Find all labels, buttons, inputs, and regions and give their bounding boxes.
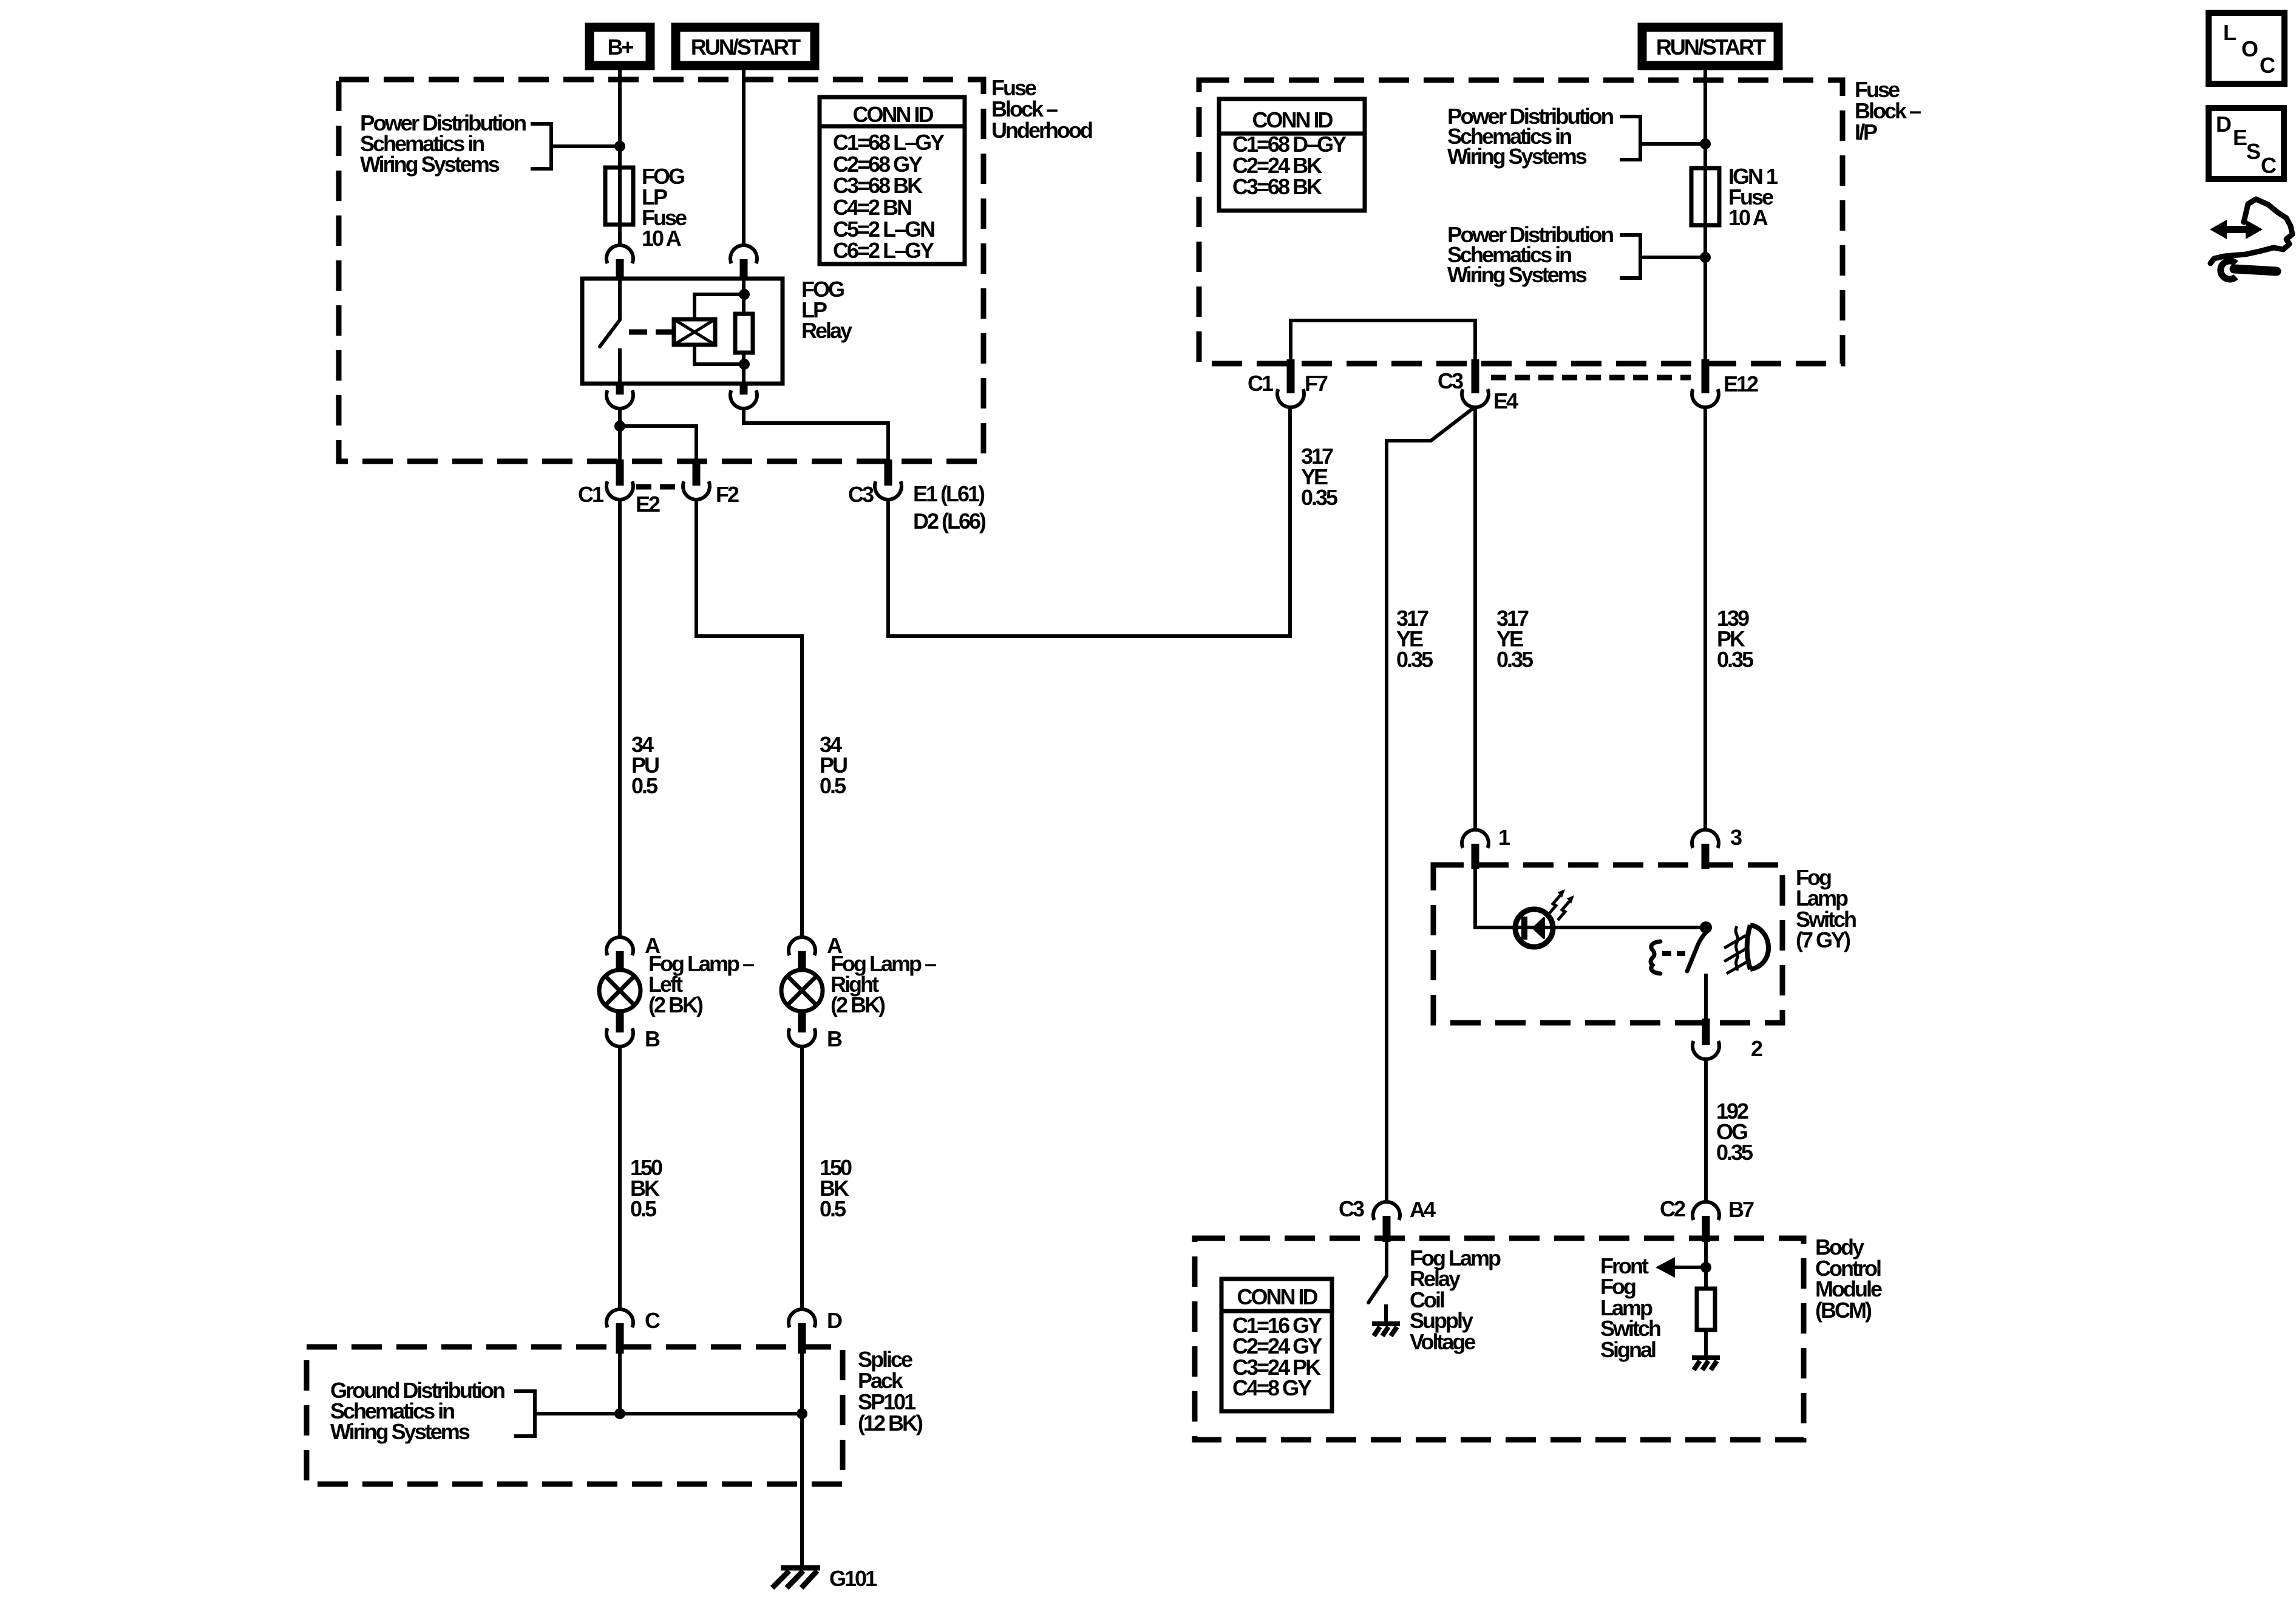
svg-text:Wiring Systems: Wiring Systems [360, 152, 500, 177]
wire relay left output down with branch [620, 408, 696, 467]
svg-text:CONN ID: CONN ID [1237, 1284, 1318, 1309]
svg-text:B: B [827, 1026, 842, 1051]
svg-text:Voltage: Voltage [1410, 1329, 1475, 1354]
svg-text:C4=2 BN: C4=2 BN [833, 195, 911, 220]
connector arc: RUN/START into relay [730, 245, 757, 279]
Splice Pack SP101 dashed border [307, 1347, 843, 1484]
wire label 150 BK 0.5 (left) [630, 1155, 662, 1221]
svg-text:C3: C3 [848, 482, 874, 507]
B+ terminal box [589, 27, 650, 66]
connector arc: relay output right [730, 384, 757, 408]
svg-text:(2 BK): (2 BK) [830, 992, 885, 1017]
Power Distribution note (left) [360, 110, 526, 177]
wire label 317 YE 0.35 (switch feed) [1496, 606, 1533, 672]
CONN ID table (BCM) [1221, 1279, 1332, 1411]
svg-text:0.5: 0.5 [630, 1196, 657, 1221]
connector F2 at fuse block border [683, 459, 710, 500]
Splice Pack SP101 label [858, 1347, 923, 1436]
svg-text:C: C [645, 1308, 661, 1333]
fog lamp right (lamp symbol) [781, 970, 823, 1011]
relay coil loop wires [695, 294, 744, 364]
Fog Lamp Switch label [1796, 865, 1856, 952]
wire E12 down to switch pin 3 [1703, 407, 1707, 830]
svg-text:C4=8 GY: C4=8 GY [1232, 1375, 1312, 1400]
svg-text:Underhood: Underhood [991, 118, 1092, 143]
wire label 150 BK 0.5 (right) [820, 1155, 852, 1221]
svg-text:C3: C3 [1438, 368, 1463, 393]
svg-text:0.35: 0.35 [1301, 485, 1338, 510]
fuse IGN 1 (rect) [1691, 168, 1719, 225]
switch actuating dashed link [1662, 951, 1685, 956]
svg-text:E4: E4 [1493, 388, 1518, 413]
Fog Lamp Right label [830, 951, 936, 1017]
bracket from Power Distribution note to B+ wire [531, 124, 616, 169]
connector 2 out of fog lamp switch [1693, 1019, 1719, 1059]
wire E2 down to left fog lamp [618, 499, 622, 938]
relay switch upper lead [618, 279, 622, 320]
relay resistor [735, 314, 753, 353]
wire RUN/START down to relay connector [742, 66, 746, 246]
switch blade (fog lamp switch) [1687, 931, 1707, 971]
FOG LP Fuse 10 A label [642, 164, 687, 251]
node: IGN wire tap lower [1700, 252, 1711, 263]
RUN/START terminal box (right) [1642, 27, 1778, 66]
connector 3 into fog lamp switch [1692, 830, 1719, 869]
svg-text:C: C [2260, 53, 2275, 78]
internal wire F7 to E4 inside I/P block [1291, 320, 1475, 361]
Fuse Block - Underhood dashed border [339, 80, 983, 461]
connector C1 F7 at I/P border [1277, 359, 1304, 407]
BCM input wire from B7 [1704, 1242, 1708, 1289]
wire label 317 YE 0.35 (diagonal branch) [1396, 606, 1433, 672]
connector C2 B7 into BCM [1693, 1202, 1719, 1242]
wire relay right output jog to C3 connector [744, 408, 888, 467]
Power Distribution note (I/P upper) [1447, 104, 1613, 169]
Power Distribution note (I/P lower) [1447, 222, 1613, 287]
fuse FOG LP (rect) [605, 168, 633, 225]
svg-text:B+: B+ [607, 35, 633, 59]
indicator LED (circle with diode) [1515, 909, 1553, 947]
connector D into splice pack [789, 1309, 815, 1354]
connector C3 E1 at fuse block border [875, 459, 902, 500]
svg-text:2: 2 [1751, 1036, 1762, 1061]
svg-text:S: S [2246, 139, 2260, 164]
svg-text:E12: E12 [1724, 371, 1758, 396]
BCM driver ground stub [1384, 1304, 1388, 1324]
svg-text:10 A: 10 A [1728, 205, 1768, 230]
svg-text:3: 3 [1730, 825, 1742, 850]
wire right lamp to splice pack [800, 1046, 804, 1310]
svg-text:C1: C1 [1248, 371, 1274, 396]
connector C into splice pack [606, 1309, 633, 1354]
Front Fog Lamp Switch Signal label [1600, 1253, 1660, 1362]
svg-text:0.35: 0.35 [1396, 647, 1433, 672]
bracket upper to IGN wire [1620, 117, 1702, 160]
RUN/START terminal box (left) [676, 27, 815, 66]
svg-text:F7: F7 [1305, 371, 1328, 396]
svg-text:B7: B7 [1728, 1197, 1754, 1222]
connector arc: fuse output into relay [606, 245, 633, 279]
connector C3 E4 at I/P border [1462, 359, 1489, 407]
connector B of right fog lamp [789, 1010, 815, 1046]
switch detent symbol [1651, 941, 1660, 974]
wire pin 1 to indicator [1475, 869, 1706, 927]
node: relay output split [614, 421, 625, 432]
node: splice junction C [614, 1408, 625, 1419]
connector A of right fog lamp [789, 937, 815, 971]
svg-text:Signal: Signal [1600, 1337, 1656, 1362]
svg-text:D: D [827, 1308, 842, 1333]
Fuse Block - I/P dashed border [1199, 80, 1843, 364]
wire RUN/START right down through fuse to E12 [1703, 66, 1707, 361]
svg-text:0.35: 0.35 [1496, 647, 1533, 672]
svg-text:1: 1 [1498, 825, 1510, 850]
svg-text:B: B [645, 1026, 660, 1051]
Fuse Block - I/P label [1855, 77, 1921, 144]
svg-text:Relay: Relay [801, 318, 852, 343]
IGN 1 Fuse 10 A label [1728, 164, 1778, 230]
Body Control Module dashed border [1195, 1238, 1804, 1440]
node: B+ wire tap junction [614, 141, 625, 152]
svg-text:F2: F2 [716, 482, 739, 507]
FOG LP Relay label [801, 277, 852, 343]
signal arrow (Front Fog Lamp Switch Signal) [1656, 1257, 1706, 1278]
wire label 192 OG 0.35 [1716, 1099, 1753, 1165]
BCM driver switch blade [1368, 1276, 1387, 1303]
relay FOG LP box [582, 279, 783, 384]
Ground Distribution note [330, 1378, 504, 1444]
CONN ID table (I/P fuse block) [1219, 99, 1365, 211]
svg-text:L: L [2223, 20, 2236, 45]
svg-text:C: C [2261, 153, 2277, 178]
bracket lower to IGN wire [1620, 235, 1702, 278]
wire label 34 PU 0.5 (right) [820, 732, 847, 798]
svg-text:0.35: 0.35 [1717, 647, 1754, 672]
Fog Lamp Relay Coil Supply Voltage label [1410, 1246, 1501, 1354]
wire B+ down to fuse and relay connector [618, 66, 622, 246]
svg-text:E2: E2 [636, 492, 660, 517]
fog lamp beam icon [1724, 925, 1768, 974]
node: BCM input junction [1700, 1262, 1711, 1273]
hand with arrow and wrench icon [2210, 199, 2292, 279]
switch lower contact [1704, 974, 1708, 1020]
svg-text:0.5: 0.5 [631, 773, 658, 798]
connector C1 E2 at fuse block border [606, 459, 633, 500]
svg-text:0.5: 0.5 [820, 1196, 846, 1221]
LOC index box [2209, 13, 2284, 84]
svg-text:C3=68 BK: C3=68 BK [1232, 174, 1322, 199]
connector E12 at I/P border [1692, 359, 1719, 407]
svg-text:CONN ID: CONN ID [1252, 107, 1333, 132]
ground (BCM input) [1692, 1358, 1720, 1370]
fog lamp left (lamp symbol) [599, 970, 640, 1011]
Body Control Module label [1815, 1235, 1882, 1323]
connector A of left fog lamp [606, 937, 633, 971]
connector arc: relay output left [606, 384, 633, 408]
indicator light rays [1549, 889, 1574, 920]
connector 1 into fog lamp switch [1462, 830, 1489, 869]
ground (BCM driver) [1372, 1324, 1400, 1336]
bracket from Ground Distribution note [514, 1391, 535, 1436]
CONN ID table (Underhood fuse block) [820, 97, 965, 264]
ground G101 [772, 1568, 820, 1588]
Fog Lamp Switch dashed border [1433, 865, 1782, 1023]
svg-text:D: D [2216, 112, 2231, 137]
relay switch lower lead [618, 348, 622, 384]
svg-text:C3: C3 [1339, 1196, 1364, 1221]
BCM driver wire from A4 [1385, 1242, 1388, 1276]
node: IGN wire tap upper [1700, 138, 1711, 149]
relay right leg wire [742, 279, 746, 384]
svg-text:(7 GY): (7 GY) [1796, 927, 1850, 952]
wire F2 down jog to right fog lamp [696, 499, 802, 938]
svg-text:E: E [2233, 125, 2247, 150]
connector body dashed link E4-E12 [1491, 375, 1691, 381]
svg-text:RUN/START: RUN/START [1656, 35, 1766, 59]
relay actuating dashed link [629, 330, 673, 335]
node: switch common junction [1700, 921, 1712, 934]
wire label 139 PK 0.35 [1717, 606, 1754, 672]
Fuse Block - Underhood label [991, 75, 1092, 143]
svg-text:0.5: 0.5 [820, 773, 846, 798]
wire label 317 YE 0.35 (F7 riser) [1301, 444, 1338, 510]
connector body dashed link C1-F2 [636, 484, 682, 490]
DESC index box [2209, 108, 2284, 179]
svg-text:C6=2 L–GY: C6=2 L–GY [833, 238, 934, 263]
connector B of left fog lamp [606, 1010, 633, 1046]
node: splice junction D [796, 1408, 807, 1419]
svg-text:RUN/START: RUN/START [691, 35, 801, 59]
svg-text:G101: G101 [829, 1566, 877, 1591]
svg-text:C1=68 L–GY: C1=68 L–GY [833, 130, 945, 155]
svg-text:A4: A4 [1410, 1197, 1436, 1222]
wire left lamp to splice pack [618, 1046, 622, 1310]
wire E4 down to switch pin 1 [1473, 407, 1477, 830]
wire switch to BCM B7 [1704, 1059, 1708, 1202]
svg-text:I/P: I/P [1855, 120, 1877, 144]
svg-text:D2 (L66): D2 (L66) [913, 509, 986, 534]
svg-text:(2 BK): (2 BK) [648, 992, 703, 1017]
wire C3 E1 down and across to F7 riser [888, 407, 1290, 636]
BCM pulldown resistor [1697, 1289, 1715, 1330]
svg-text:CONN ID: CONN ID [853, 102, 934, 127]
node: coil to resistor top [739, 289, 750, 300]
svg-text:C2: C2 [1660, 1196, 1685, 1221]
svg-text:C1: C1 [578, 482, 604, 507]
wire resistor to ground [1704, 1330, 1708, 1358]
node: coil to resistor bottom [739, 359, 750, 370]
svg-text:C3=68 BK: C3=68 BK [833, 173, 923, 198]
svg-text:Wiring Systems: Wiring Systems [1447, 262, 1587, 287]
svg-text:0.35: 0.35 [1716, 1140, 1753, 1165]
svg-text:O: O [2241, 36, 2258, 61]
wire label 34 PU 0.5 (left) [631, 732, 659, 798]
wire E4 diagonal branch to BCM A4 [1387, 407, 1475, 1202]
svg-text:(BCM): (BCM) [1815, 1298, 1872, 1323]
splice bus wire [535, 1354, 802, 1567]
svg-text:Wiring Systems: Wiring Systems [1447, 144, 1587, 169]
svg-text:(12 BK): (12 BK) [858, 1411, 923, 1436]
svg-text:Wiring Systems: Wiring Systems [330, 1419, 470, 1444]
svg-text:10 A: 10 A [642, 226, 682, 251]
Fog Lamp Left label [648, 951, 754, 1017]
svg-text:E1 (L61): E1 (L61) [913, 481, 985, 506]
connector C3 A4 into BCM [1373, 1202, 1400, 1242]
relay coil (box with X) [674, 319, 715, 345]
relay switch blade [600, 320, 620, 347]
